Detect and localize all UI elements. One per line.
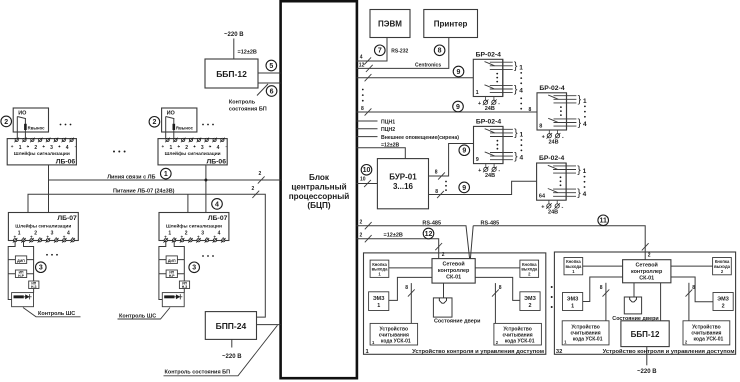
svg-text:+: + [42, 144, 45, 149]
svg-text:ПЦН2: ПЦН2 [381, 127, 395, 133]
svg-text:Centronics: Centronics [415, 63, 441, 69]
node 9 (line 2) [453, 101, 464, 112]
dots more outputs [362, 89, 364, 102]
relay block БР-02-4 (1) [473, 52, 523, 112]
svg-text:ЭМЗ: ЭМЗ [717, 296, 729, 302]
svg-text:5: 5 [269, 63, 273, 70]
wire ПЦН1 output [357, 119, 396, 125]
svg-text:2: 2 [34, 145, 37, 151]
svg-text:Шлейфы сигнализации: Шлейфы сигнализации [14, 150, 70, 157]
wire СК-01 to УСК-01 (2) unit 2 [686, 283, 696, 321]
svg-text:1: 1 [583, 98, 587, 105]
svg-text:БПП-24: БПП-24 [216, 321, 247, 331]
svg-text:-: - [562, 134, 564, 140]
more detectors dots [202, 124, 214, 126]
svg-text:2: 2 [360, 233, 363, 239]
svg-text:контроллер: контроллер [631, 269, 663, 275]
svg-text:Устройство контроля и управлен: Устройство контроля и управления доступо… [412, 348, 544, 355]
reader УСК-01 (1) unit 1 [370, 323, 418, 345]
svg-text:БР-02-4: БР-02-4 [539, 155, 565, 162]
svg-text:Устройство: Устройство [380, 325, 409, 332]
svg-text:2: 2 [34, 230, 37, 236]
svg-text:Внешнее оповещение(сирена): Внешнее оповещение(сирена) [381, 135, 459, 141]
computer ПЭВМ [370, 10, 410, 38]
svg-text:4: 4 [217, 145, 220, 151]
wire БЦП to БР-02-4 block 1 [357, 77, 474, 79]
wire Питание to ЛБ-07 second [187, 194, 189, 212]
svg-text:9: 9 [456, 104, 460, 111]
svg-text:3: 3 [201, 145, 204, 151]
wire =12±2В БЦП to БУР-01 [357, 143, 406, 159]
svg-text:Устройство: Устройство [571, 323, 600, 330]
block ЛБ-07 (second) [159, 213, 229, 243]
node ~220 В input ББП-12 unit 2 [637, 347, 657, 375]
relay block БР-02-4 (4) [537, 155, 587, 215]
svg-text:}: } [578, 117, 582, 129]
node 12 [423, 228, 434, 239]
svg-text:-: - [498, 101, 500, 107]
svg-text:+: + [541, 205, 544, 211]
svg-text:Состояние двери: Состояние двери [612, 316, 658, 322]
svg-text:3: 3 [201, 230, 204, 236]
svg-text:БР-02-4: БР-02-4 [476, 119, 502, 126]
svg-text:9: 9 [476, 157, 479, 163]
svg-text:БР-02-4: БР-02-4 [539, 85, 565, 92]
lock ЭМЗ 2 (unit 2) [713, 293, 733, 311]
wire ПЦН2 output [357, 127, 396, 133]
svg-text:2: 2 [185, 145, 188, 151]
wire СК-01 to УСК-01 (1) 8 wires [405, 283, 415, 323]
svg-text:+: + [58, 144, 61, 149]
svg-text:Питание ЛБ-07 (24±3В): Питание ЛБ-07 (24±3В) [113, 189, 175, 195]
node 4 [212, 199, 223, 210]
svg-text:RS-232: RS-232 [391, 48, 408, 54]
label Контроль ШС (second) [118, 308, 171, 320]
door contact (unit 1) [433, 298, 452, 317]
svg-text:Н.З: Н.З [31, 285, 37, 289]
svg-text:24В: 24В [485, 106, 495, 112]
svg-text:2: 2 [152, 119, 156, 126]
label Состояние двери (unit 2) [612, 316, 658, 322]
bus width 2 mark [258, 171, 265, 184]
svg-text:Шлейфы сигнализации: Шлейфы сигнализации [166, 222, 222, 229]
svg-text:Контроль ШС: Контроль ШС [119, 313, 156, 319]
label RS-232 [391, 48, 408, 54]
access control unit 32 outer [554, 252, 735, 354]
svg-text:~220 В: ~220 В [224, 32, 244, 38]
more detectors dots [60, 124, 72, 126]
wire RS-485 БЦП to СК-01 (unit 1) [357, 226, 470, 259]
svg-text:ЭМЗ: ЭМЗ [373, 296, 385, 302]
svg-text:Rвынос: Rвынос [176, 126, 194, 131]
button Кнопка выхода 2 (unit 2) [713, 258, 732, 275]
svg-text:ББП-12: ББП-12 [216, 69, 247, 79]
svg-text:Шлейфы сигнализации: Шлейфы сигнализации [15, 222, 71, 229]
relay block БР-02-4 (2) [474, 119, 524, 179]
relay block БР-02-4 (3) [537, 85, 587, 145]
svg-text:2: 2 [722, 303, 725, 309]
svg-text:+: + [11, 144, 14, 149]
svg-text:ИО: ИО [167, 111, 176, 117]
svg-text:}: } [514, 60, 518, 72]
svg-text:+: + [209, 144, 212, 149]
reader УСК-01 (2) unit 1 [494, 323, 542, 345]
svg-text:4: 4 [360, 55, 363, 61]
node 11 [598, 215, 609, 226]
svg-text:ДИП: ДИП [17, 259, 25, 263]
svg-text:3: 3 [51, 230, 54, 236]
label Линия связи с ЛБ [107, 174, 155, 180]
wire БУР-01 output 2 to БР block 4 [429, 181, 537, 198]
wire =12±2В БЦП to СК-01 unit 1 [357, 239, 439, 259]
svg-text:RS-485: RS-485 [481, 220, 500, 226]
svg-text:+: + [542, 134, 545, 140]
wire СК-01 to door contact (unit 2) [633, 283, 635, 297]
svg-text:4: 4 [519, 88, 523, 95]
wire БЦП to БР-02-4 block 3 [357, 111, 538, 113]
label Питание ЛБ-07 [113, 189, 175, 195]
svg-text:-: - [498, 168, 500, 174]
svg-text:Н.Р: Н.Р [18, 274, 24, 278]
wire RS-485 СК-01 unit1 to unit2 [470, 226, 645, 260]
svg-text:8: 8 [361, 106, 364, 112]
node 2 (first) [1, 116, 12, 127]
wire Внешнее оповещение output [357, 135, 460, 141]
svg-text:2: 2 [648, 252, 651, 258]
svg-text:+: + [193, 144, 196, 149]
button Кнопка выхода 2 [520, 260, 539, 277]
wire Питание ЛБ-07 bus [28, 194, 265, 317]
svg-text:10: 10 [360, 176, 366, 182]
button Кнопка выхода 1 (unit 2) [564, 258, 583, 275]
wire button2 to СК-01 (unit 2) [671, 265, 713, 267]
wire БУР-01 output 1 to БР block 2 [429, 144, 474, 180]
svg-text:=12±2В: =12±2В [384, 232, 403, 238]
svg-text:состояния БП: состояния БП [229, 107, 267, 113]
svg-text:1: 1 [476, 90, 479, 96]
svg-text:3...16: 3...16 [393, 182, 414, 191]
block БЦП central processor [281, 1, 357, 378]
svg-text:Н.Р: Н.Р [169, 274, 175, 278]
svg-text:-: - [561, 205, 563, 211]
svg-text:3: 3 [39, 265, 43, 272]
label RS-485 (1) [422, 220, 441, 226]
power supply ББП-12 (unit 2) [621, 321, 669, 347]
wire ББП-12 status to БЦП [258, 82, 281, 84]
door contact (unit 2) [624, 297, 641, 314]
svg-text:ЛБ-06: ЛБ-06 [207, 159, 227, 166]
node 9 (БУР output 2) [459, 182, 470, 193]
svg-text:7: 7 [378, 48, 382, 55]
lock ЭМЗ 1 (unit 2) [563, 293, 583, 311]
svg-text:1: 1 [520, 131, 524, 138]
node 1 [161, 168, 172, 179]
wire button1 to СК-01 (unit 2) [583, 265, 623, 267]
svg-text:4: 4 [218, 230, 221, 236]
node ~220 В input for БПП-24 [222, 339, 242, 360]
svg-text:ИО: ИО [18, 111, 27, 117]
wire СК-01 to ЭМЗ 1 [389, 277, 432, 300]
dots between units [551, 286, 553, 308]
svg-text:4: 4 [66, 145, 69, 151]
svg-text:8: 8 [405, 285, 408, 291]
svg-text:11: 11 [599, 218, 607, 225]
reader УСК-01 (2) unit 2 [683, 321, 730, 345]
svg-text:Состояние двери: Состояние двери [434, 319, 480, 325]
wire СК-01 to ЭМЗ 2 [475, 277, 520, 300]
dots between ЛБ-06 blocks [113, 151, 126, 153]
svg-text:4: 4 [215, 201, 219, 208]
wire button1 to СК-01 [389, 267, 432, 269]
svg-text:ЭМЗ: ЭМЗ [524, 296, 536, 302]
svg-text:+: + [177, 144, 180, 149]
dots [46, 254, 58, 256]
svg-text:8: 8 [499, 285, 502, 291]
svg-text:1: 1 [168, 230, 171, 236]
label 8 near БР block 3 [529, 107, 532, 113]
wire RS-232 БЦП to ПЭВМ [357, 38, 388, 62]
power supply ББП-12 [205, 59, 258, 88]
svg-text:Линия связи с ЛБ: Линия связи с ЛБ [107, 174, 155, 180]
svg-text:ББП-12: ББП-12 [631, 330, 660, 339]
svg-text:~220 В: ~220 В [222, 354, 242, 360]
node 8 [434, 45, 445, 56]
svg-text:10: 10 [363, 167, 371, 174]
node 5 [266, 60, 277, 71]
svg-text:12: 12 [425, 231, 433, 238]
svg-text:кода УСК-01: кода УСК-01 [694, 336, 724, 342]
svg-text:Rвынос: Rвынос [28, 126, 46, 131]
controller СК-01 (unit 1) [432, 259, 475, 284]
svg-text:9: 9 [462, 148, 466, 155]
svg-text:}: } [577, 187, 581, 199]
svg-text:8: 8 [600, 285, 603, 291]
svg-text:2: 2 [252, 186, 255, 192]
svg-text:Устройство: Устройство [503, 325, 532, 332]
svg-text:ДИП: ДИП [168, 259, 176, 263]
svg-text:Сетевой: Сетевой [636, 262, 658, 269]
wire button2 to СК-01 [475, 267, 520, 269]
svg-text:ЭМЗ: ЭМЗ [567, 296, 579, 302]
svg-text:ПЭВМ: ПЭВМ [378, 20, 402, 29]
svg-text:12: 12 [359, 62, 365, 68]
block ЛБ-06 (first) [7, 138, 76, 166]
svg-text:1: 1 [377, 303, 380, 309]
label =12±2В [384, 232, 403, 238]
dots more outputs [445, 181, 447, 191]
block ЛБ-07 (first) [8, 213, 78, 243]
svg-text:Сетевой: Сетевой [442, 261, 464, 268]
svg-text:2: 2 [360, 220, 363, 226]
detector ИО (first) with Rвынос [13, 108, 48, 139]
svg-text:(БЦП): (БЦП) [307, 201, 330, 210]
wire Линия связи с ЛБ bus [49, 165, 281, 213]
svg-text:24В: 24В [548, 139, 558, 145]
svg-text:контроллер: контроллер [438, 268, 470, 274]
wire ББП-12 power output to БЦП [258, 72, 281, 74]
dots [202, 255, 214, 257]
expander БУР-01 3...16 [377, 159, 428, 209]
svg-text:ЛБ-07: ЛБ-07 [208, 215, 228, 222]
svg-text:24В: 24В [548, 210, 558, 216]
svg-text:~220 В: ~220 В [637, 369, 657, 375]
svg-text:8: 8 [692, 285, 695, 291]
svg-text:}: } [514, 127, 518, 139]
svg-text:}: } [578, 94, 582, 106]
wire СК-01 to ББП-12 (unit 2) [660, 283, 662, 321]
label Устройство контроля и управления доступом (unit 1) [412, 348, 544, 355]
bus width 2 mark [252, 186, 260, 198]
svg-text:}: } [514, 83, 518, 95]
node 7 [375, 45, 386, 56]
svg-text:кода УСК-01: кода УСК-01 [505, 338, 535, 344]
node 9 (line 1) [453, 66, 464, 77]
svg-text:кода УСК-01: кода УСК-01 [381, 338, 411, 344]
label Контроль ШС (first) [23, 308, 81, 318]
svg-text:СК-01: СК-01 [446, 275, 461, 281]
svg-text:Блок: Блок [309, 173, 330, 182]
label 12 wires [359, 62, 365, 68]
access control unit 1 outer [364, 253, 546, 354]
svg-text:=12±2В: =12±2В [238, 50, 257, 56]
label RS-485 (2) [481, 220, 500, 226]
svg-text:Устройство: Устройство [692, 323, 721, 330]
svg-text:3: 3 [192, 265, 196, 272]
node 10 [361, 165, 372, 176]
detector ИО (second) with Rвынос [162, 108, 197, 139]
svg-text:2: 2 [259, 171, 262, 177]
svg-text:4: 4 [583, 191, 587, 198]
node 3 (first) [36, 262, 47, 273]
svg-text:центральный: центральный [291, 182, 346, 191]
svg-text:1: 1 [170, 145, 173, 151]
svg-text:Устройство контроля и управлен: Устройство контроля и управления доступо… [603, 348, 735, 355]
node 6 [266, 86, 277, 97]
svg-text:процессорный: процессорный [289, 192, 350, 201]
label 4 wires [360, 55, 363, 61]
svg-text:1: 1 [571, 303, 574, 309]
svg-text:6: 6 [270, 88, 274, 95]
label unit number 1 [366, 349, 370, 355]
svg-text:1: 1 [19, 145, 22, 151]
svg-text:1: 1 [18, 230, 21, 236]
label Устройство контроля и управления доступом (unit 2) [603, 348, 735, 355]
svg-text:+: + [162, 144, 165, 149]
svg-text:Шлейфы сигнализации: Шлейфы сигнализации [165, 150, 221, 157]
svg-text:8: 8 [539, 123, 542, 129]
svg-text:СК-01: СК-01 [639, 276, 654, 282]
alarm loop chain (second) [159, 241, 190, 307]
label unit number 32 [556, 349, 562, 355]
node ~220 В input for ББП-12 [224, 32, 244, 59]
svg-text:4: 4 [520, 155, 524, 162]
svg-text:ПЦН1: ПЦН1 [381, 119, 395, 125]
wire СК-01 to ЭМЗ 2 (unit 2) [671, 277, 713, 302]
node 3 (second) [189, 262, 200, 273]
label Контроль состояния БП (top) [229, 84, 268, 113]
svg-text:64: 64 [539, 194, 546, 200]
wire СК-01 to УСК-01 (1) unit 2 [600, 283, 610, 321]
printer Принтер [424, 10, 478, 38]
svg-text:8: 8 [438, 48, 442, 55]
label 8 wires [361, 106, 364, 112]
svg-text:1: 1 [583, 168, 587, 175]
svg-text:БУР-01: БУР-01 [389, 172, 417, 181]
label Контроль состояния БП (bottom) [164, 325, 278, 376]
svg-text:кода УСК-01: кода УСК-01 [573, 336, 603, 342]
svg-text:БР-02-4: БР-02-4 [476, 52, 502, 59]
svg-text:3: 3 [50, 145, 53, 151]
svg-text:Контроль: Контроль [229, 99, 256, 105]
svg-text:8: 8 [435, 170, 438, 176]
svg-text:Контроль состояния БП: Контроль состояния БП [165, 370, 231, 376]
svg-text:9: 9 [457, 69, 461, 76]
svg-text:+: + [26, 144, 29, 149]
power supply БПП-24 [205, 312, 256, 340]
svg-text:RS-485: RS-485 [422, 220, 441, 226]
reader УСК-01 (1) unit 2 [562, 321, 609, 345]
svg-text:9: 9 [462, 185, 466, 192]
svg-text:Контроль ШС: Контроль ШС [38, 311, 75, 317]
lock ЭМЗ 2 (unit 1) [520, 292, 540, 311]
alarm loop chain (first): ДИП, ИП Н.Р, ИП Н.З, end-of-line [8, 241, 39, 307]
svg-text:Н.З: Н.З [182, 285, 188, 289]
node 2 (second) [149, 117, 160, 128]
label =12±2В output [238, 50, 257, 56]
svg-text:32: 32 [556, 349, 562, 355]
wire СК-01 to door contact [443, 283, 445, 298]
node 9 (БУР output 1) [459, 145, 470, 156]
svg-text:4: 4 [583, 121, 587, 128]
svg-text:ЛБ-07: ЛБ-07 [57, 215, 77, 222]
lock ЭМЗ 1 (unit 1) [369, 292, 389, 311]
wire Centronics БЦП to Принтер [357, 38, 449, 69]
svg-text:1: 1 [164, 171, 168, 178]
label Centronics [415, 63, 441, 69]
svg-text:1: 1 [519, 64, 523, 71]
block ЛБ-06 (second) [158, 138, 227, 166]
svg-text:+: + [478, 168, 481, 174]
svg-text:}: } [577, 164, 581, 176]
button Кнопка выхода 1 [370, 260, 389, 277]
svg-text:2: 2 [4, 119, 8, 126]
svg-text:ЛБ-06: ЛБ-06 [56, 159, 76, 166]
junction ЛБ-06 second to bus [205, 165, 207, 212]
svg-text:2: 2 [529, 303, 532, 309]
wire БЦП to БУР-01 (10 wires) [357, 176, 378, 187]
label Состояние двери (unit 1) [434, 319, 480, 325]
svg-text:4: 4 [67, 230, 70, 236]
svg-text:}: } [514, 150, 518, 162]
svg-text:24В: 24В [485, 173, 495, 179]
wire СК-01 to ЭМЗ 1 (unit 2) [583, 277, 623, 302]
svg-text:Принтер: Принтер [434, 20, 468, 29]
wire БПП-24 status to БЦП [257, 324, 281, 326]
controller СК-01 (unit 2) [623, 260, 671, 283]
svg-text:8: 8 [529, 107, 532, 113]
svg-text:+: + [478, 101, 481, 107]
wire СК-01 to УСК-01 (2) 8 wires [492, 283, 502, 323]
svg-text:2: 2 [185, 230, 188, 236]
